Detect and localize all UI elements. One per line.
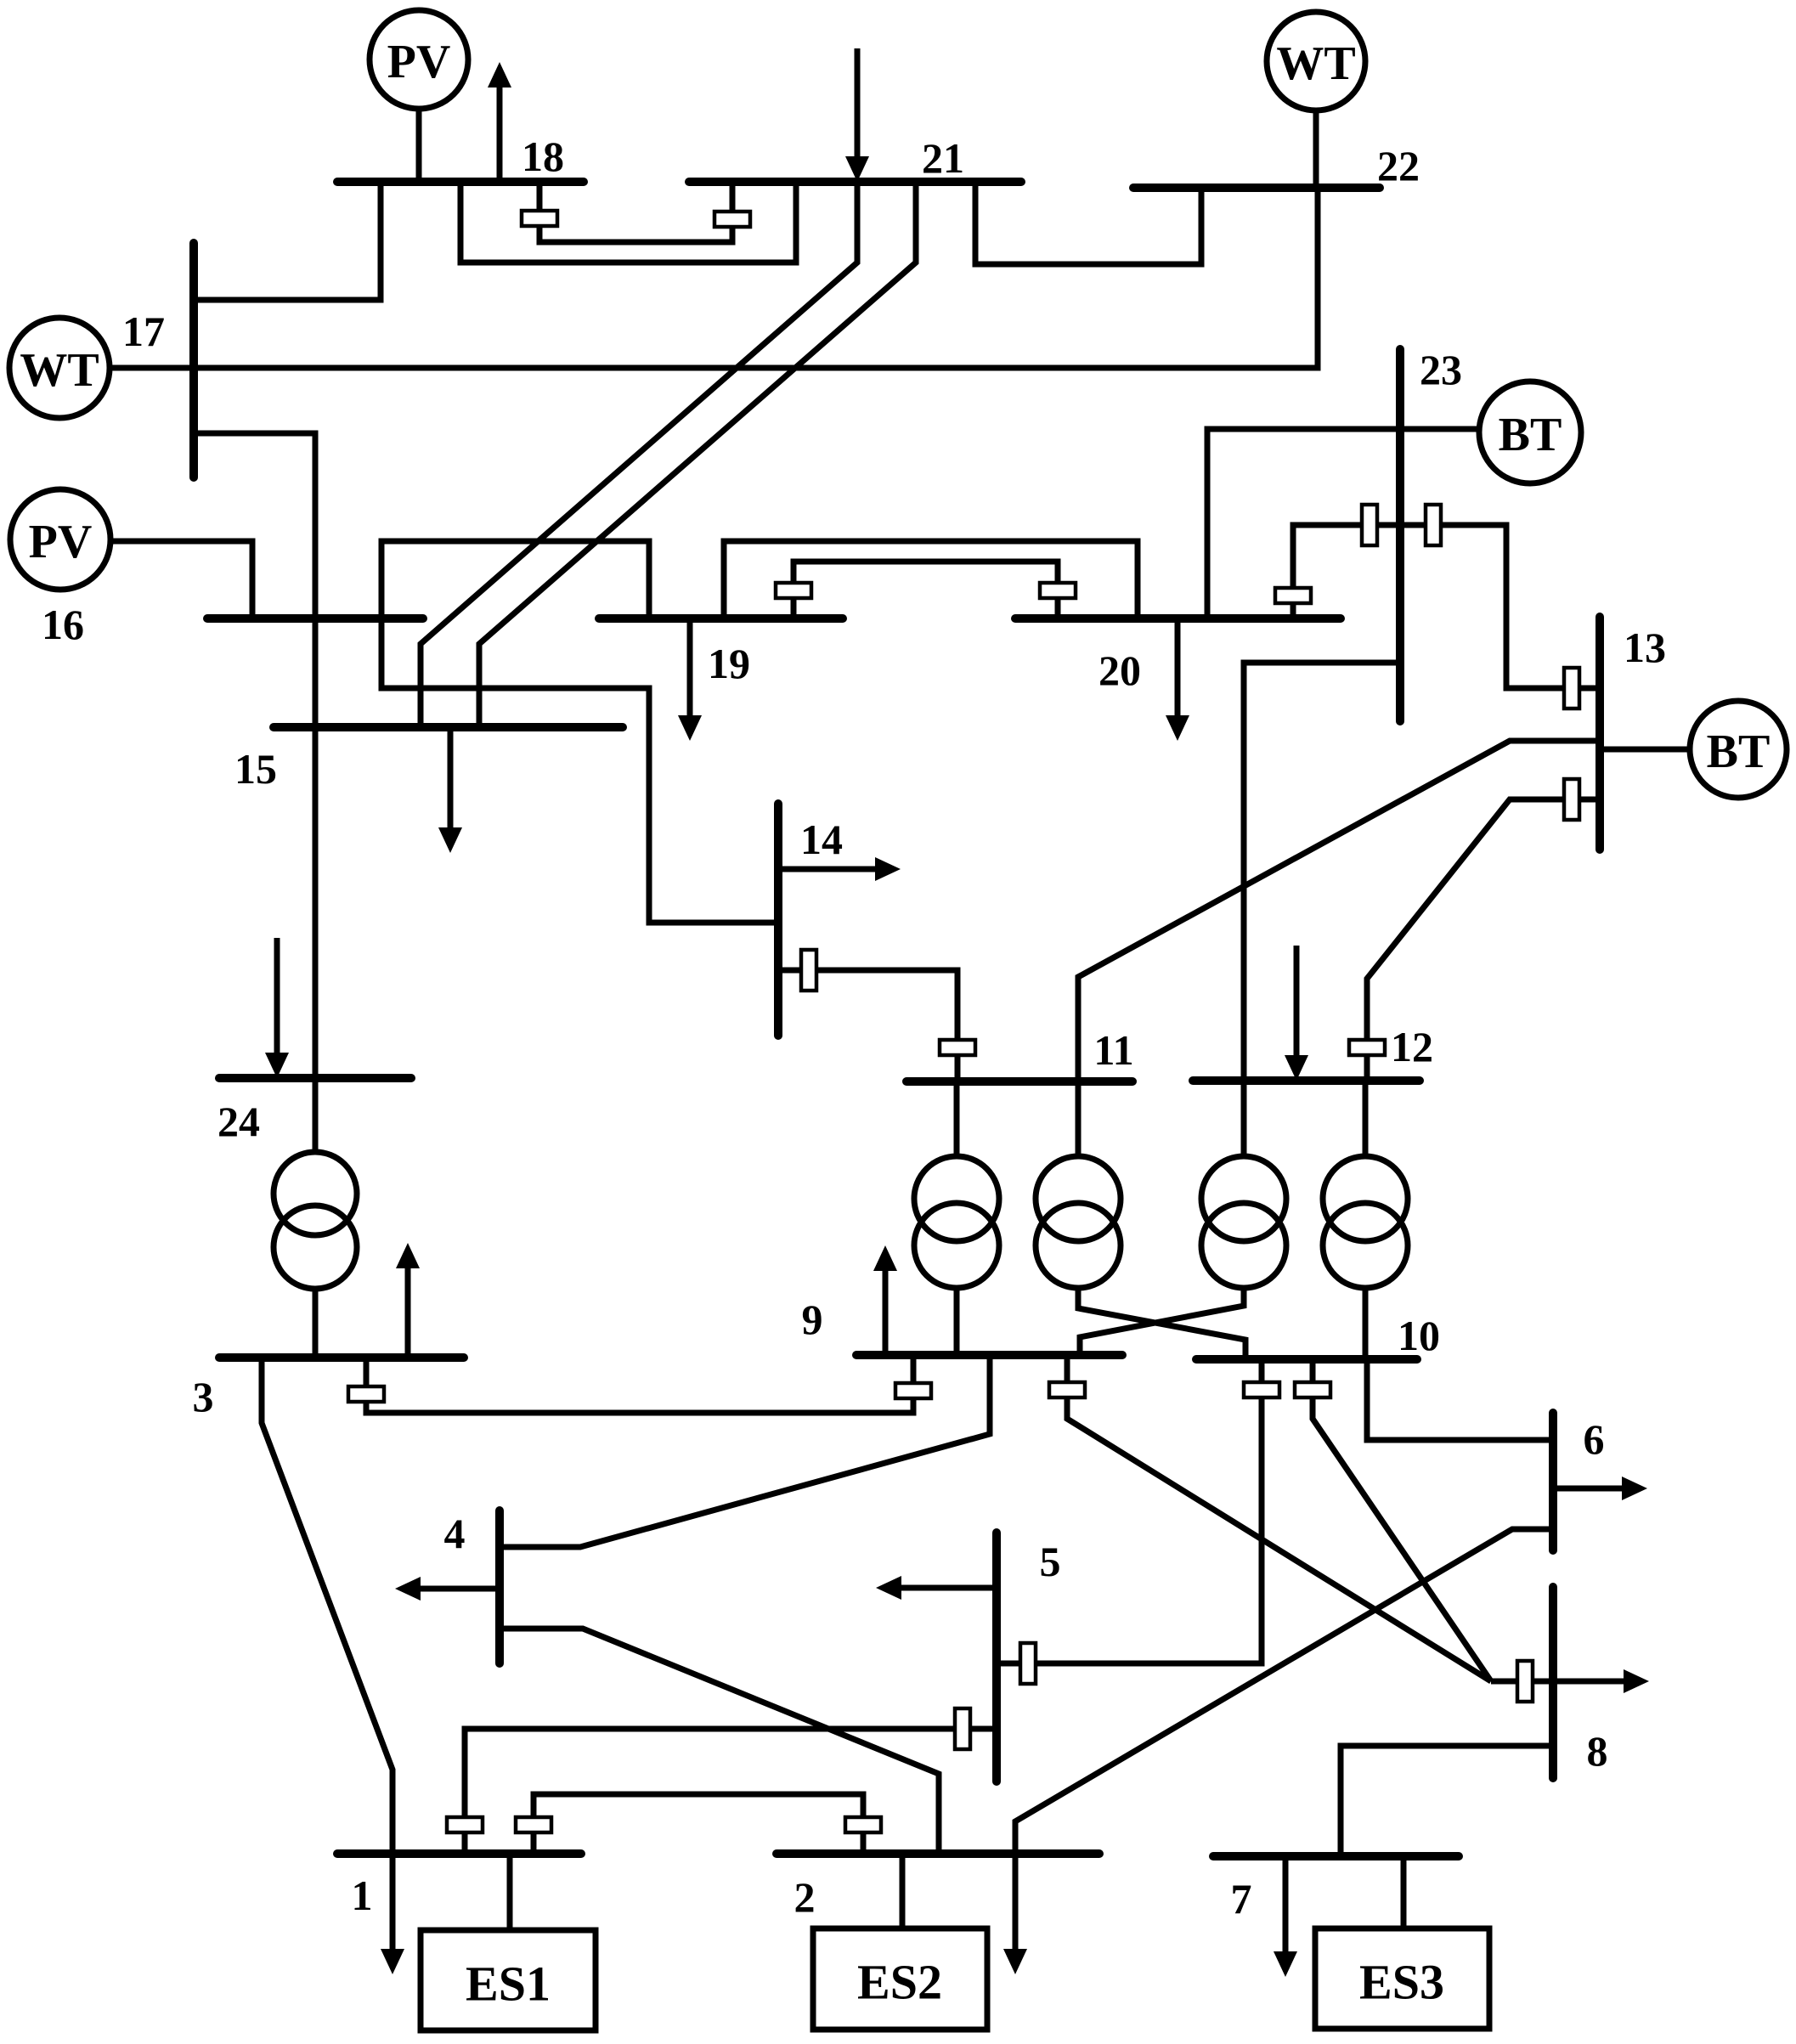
arrow load bus 6 (right): [1553, 1477, 1647, 1500]
svg-text:21: 21: [922, 134, 964, 182]
wire BT generator stem to bus 23: [1400, 426, 1479, 432]
bus 16: [207, 614, 423, 623]
generator PV at bus 18: [370, 10, 468, 109]
svg-text:17: 17: [122, 308, 165, 355]
wire 11-13: [1078, 741, 1600, 1081]
wire PV generator to bus 16: [110, 541, 252, 618]
arrow load bus 21 (down): [845, 48, 869, 182]
wire 4-9: [500, 1355, 990, 1547]
svg-text:WT: WT: [1276, 37, 1355, 90]
wire 15-21 circuit 2: [479, 182, 916, 727]
svg-text:5: 5: [1040, 1538, 1061, 1585]
wire transformer T3 cross to bus 9: [1080, 1287, 1244, 1355]
breaker line 20-23 c2 at bus 20: [1275, 588, 1311, 603]
arrow generation bus 3 (up): [396, 1243, 420, 1358]
bus 5: [992, 1533, 1001, 1781]
wire 1-5: [465, 1729, 997, 1854]
svg-text:14: 14: [800, 816, 843, 863]
arrow load bus 4 (left): [395, 1577, 500, 1601]
wire 12-23: [1244, 663, 1402, 1081]
svg-text:15: 15: [234, 745, 277, 793]
wire 16-19: [381, 541, 649, 618]
energy storage ES3 at bus 7: [1315, 1928, 1489, 2029]
breaker line 13-23 at bus 23: [1426, 505, 1441, 545]
bus 2: [777, 1849, 1099, 1858]
arrow load bus 20 (down): [1166, 618, 1189, 741]
svg-text:12: 12: [1391, 1023, 1433, 1070]
arrow generation bus 18 (up): [488, 62, 511, 182]
wire 2-4: [500, 1629, 939, 1854]
bus 8: [1549, 1587, 1557, 1778]
wire 17-22: [110, 188, 1318, 368]
bus 24: [219, 1074, 411, 1082]
transformer T2 bus11-bus10: [1036, 1156, 1121, 1288]
breaker line 5-10 at bus 5: [1020, 1643, 1036, 1684]
svg-text:BT: BT: [1707, 726, 1771, 778]
wire transformer T3 top stem: [1241, 1081, 1247, 1157]
breaker line 20-23 c2 at bus 23: [1362, 505, 1377, 545]
bus 10: [1196, 1355, 1417, 1364]
wire transformer T1 top stem: [954, 1081, 960, 1157]
svg-text:9: 9: [802, 1296, 823, 1343]
breaker line 3-9 at bus 9: [895, 1383, 931, 1398]
breaker line 1-2 at bus 2: [845, 1817, 881, 1832]
wire bus 1 to ES1: [507, 1854, 513, 1930]
bus 4: [495, 1510, 504, 1663]
arrow load bus 12 (down): [1285, 946, 1308, 1081]
wire transformer T2 top stem: [1076, 1081, 1082, 1157]
wire 1-3: [262, 1358, 393, 1854]
bus 17: [189, 243, 198, 477]
arrow load bus 19 (down): [678, 618, 702, 741]
wire 15-24: [313, 727, 319, 1078]
svg-text:1: 1: [352, 1872, 373, 1919]
wire bus 7 to ES3: [1401, 1856, 1407, 1928]
wire joint into bus 8: [1491, 1679, 1553, 1685]
bus 23: [1396, 349, 1404, 721]
generator WT at bus 17: [9, 318, 110, 418]
bus 15: [274, 723, 623, 731]
arrow load bus 15 (down): [438, 727, 462, 853]
wire 19-20 circuit 2: [794, 562, 1058, 618]
wire 2-6: [1015, 1529, 1553, 1854]
bus 1: [337, 1849, 581, 1858]
bus 9: [856, 1351, 1122, 1359]
generator PV at bus 16: [10, 489, 110, 590]
wire 15-16: [313, 618, 319, 727]
generator BT at bus 13: [1690, 701, 1787, 798]
transformer T3 bus12-bus9: [1201, 1156, 1286, 1288]
wire 11-14: [778, 970, 957, 1081]
svg-text:8: 8: [1587, 1727, 1608, 1775]
arrow load bus 2 (down): [1003, 1854, 1027, 1974]
wire transformer T1 bottom stem to bus 9: [954, 1287, 960, 1355]
wire transformer T4 top stem: [1363, 1081, 1369, 1157]
wire transformer bus24 bottom stem to bus 3: [313, 1288, 319, 1358]
breaker line 13-23 at bus 13: [1564, 668, 1579, 709]
wire PV generator stem to bus 18: [416, 109, 422, 182]
bus 21: [689, 178, 1021, 186]
energy storage ES2 at bus 2: [813, 1928, 987, 2030]
wire WT generator stem to bus 22: [1313, 110, 1319, 188]
arrow load bus 5 (left): [876, 1576, 997, 1600]
wire 20-23 circuit 2: [1293, 525, 1400, 618]
breaker line 3-9 at bus 3: [348, 1386, 384, 1402]
wire 18-21 circuit 1: [460, 182, 796, 263]
svg-text:PV: PV: [29, 516, 93, 568]
wire 3-9: [366, 1355, 913, 1413]
transformer T1 bus11-bus9: [914, 1156, 999, 1288]
bus 6: [1549, 1413, 1557, 1550]
breaker line 11-14 at bus 14: [801, 950, 816, 991]
svg-text:24: 24: [217, 1098, 260, 1145]
svg-text:6: 6: [1584, 1415, 1605, 1463]
breaker line 8 entry at bus 8: [1517, 1661, 1533, 1702]
svg-text:18: 18: [522, 133, 564, 180]
arrow load bus 1 (down): [381, 1854, 404, 1974]
breaker line 12-13 at bus 13: [1564, 779, 1579, 820]
wire bus 2 to ES2: [900, 1854, 906, 1928]
wire 8-9: [1067, 1355, 1491, 1681]
bus 12: [1193, 1076, 1420, 1085]
breaker line 5-10 at bus 10: [1244, 1382, 1279, 1397]
svg-text:16: 16: [42, 601, 84, 648]
bus 3: [219, 1353, 464, 1362]
svg-text:7: 7: [1231, 1875, 1252, 1923]
wire 6-10: [1367, 1359, 1553, 1440]
bus 7: [1213, 1852, 1459, 1860]
bus 18: [337, 178, 584, 186]
wire 13-23: [1400, 525, 1600, 688]
generator WT at bus 22: [1267, 12, 1365, 110]
svg-text:ES2: ES2: [857, 1955, 942, 2010]
wire 21-22: [975, 182, 1201, 264]
energy storage ES1 at bus 1: [421, 1930, 596, 2030]
breaker line 11-14 at bus 11: [940, 1040, 975, 1055]
breaker line 18-21 c2 at bus 21: [714, 212, 750, 227]
arrow load bus 8 (right): [1553, 1669, 1649, 1693]
breaker line 1-2 at bus 1: [516, 1817, 551, 1832]
wire 17-18: [194, 182, 381, 300]
breaker line 8-9 at bus 9: [1049, 1382, 1085, 1397]
wire transformer bus24 top stem: [313, 1078, 319, 1153]
svg-text:20: 20: [1098, 647, 1141, 694]
wire 5-10: [997, 1359, 1262, 1663]
breaker line 19-20 c2 at bus 19: [776, 583, 811, 598]
transformer T4 bus12-bus10: [1323, 1156, 1408, 1288]
svg-text:10: 10: [1398, 1312, 1440, 1359]
svg-text:PV: PV: [387, 36, 451, 88]
generator BT at bus 23: [1479, 381, 1581, 483]
svg-text:ES1: ES1: [466, 1956, 551, 2012]
svg-text:3: 3: [193, 1373, 214, 1420]
arrow load bus 24 (down): [265, 938, 289, 1078]
wire 15-21 circuit 1: [421, 182, 857, 727]
wire 1-2: [534, 1794, 863, 1854]
wire 7-8: [1341, 1746, 1553, 1856]
arrow generation bus 9 (up): [873, 1245, 897, 1355]
bus 19: [599, 614, 843, 623]
transformer bus24-bus3: [274, 1152, 357, 1289]
wire 12-13: [1367, 799, 1600, 1081]
svg-text:23: 23: [1420, 346, 1462, 393]
svg-text:13: 13: [1624, 624, 1666, 671]
svg-text:4: 4: [444, 1510, 466, 1557]
svg-text:2: 2: [794, 1873, 816, 1921]
svg-text:22: 22: [1377, 142, 1420, 189]
arrow load bus 14 (right): [778, 857, 901, 881]
breaker line 8-10 at bus 10: [1295, 1382, 1330, 1397]
breaker line 1-5 at bus 1: [447, 1817, 483, 1832]
wire BT generator stem to bus 13: [1600, 747, 1690, 753]
wire transformer T2 cross to bus 10: [1078, 1287, 1245, 1359]
bus 13: [1596, 617, 1604, 850]
wire 16-17: [194, 433, 315, 618]
breaker line 1-5 at bus 5: [955, 1708, 970, 1749]
wire 19-20 circuit 1: [724, 541, 1138, 618]
breaker line 12-13 at bus 12: [1349, 1040, 1385, 1055]
svg-text:WT: WT: [20, 344, 99, 397]
wire 8-10: [1313, 1359, 1491, 1681]
breaker line 19-20 c2 at bus 20: [1040, 583, 1076, 598]
wire 20-23 circuit 1: [1207, 429, 1479, 618]
svg-text:11: 11: [1093, 1026, 1133, 1074]
breaker line 18-21 c2 at bus 18: [522, 211, 557, 226]
svg-text:19: 19: [708, 640, 750, 687]
wire 18-21 circuit 2: [539, 182, 732, 242]
wire 14-16: [381, 618, 778, 923]
bus 20: [1015, 614, 1341, 623]
bus 11: [906, 1077, 1132, 1086]
wire transformer T4 bottom stem to bus 10: [1363, 1287, 1369, 1359]
svg-text:ES3: ES3: [1359, 1955, 1444, 2010]
arrow load bus 7 (down): [1274, 1856, 1297, 1977]
svg-text:BT: BT: [1499, 409, 1562, 461]
bus 14: [774, 804, 782, 1036]
bus 22: [1133, 184, 1380, 192]
